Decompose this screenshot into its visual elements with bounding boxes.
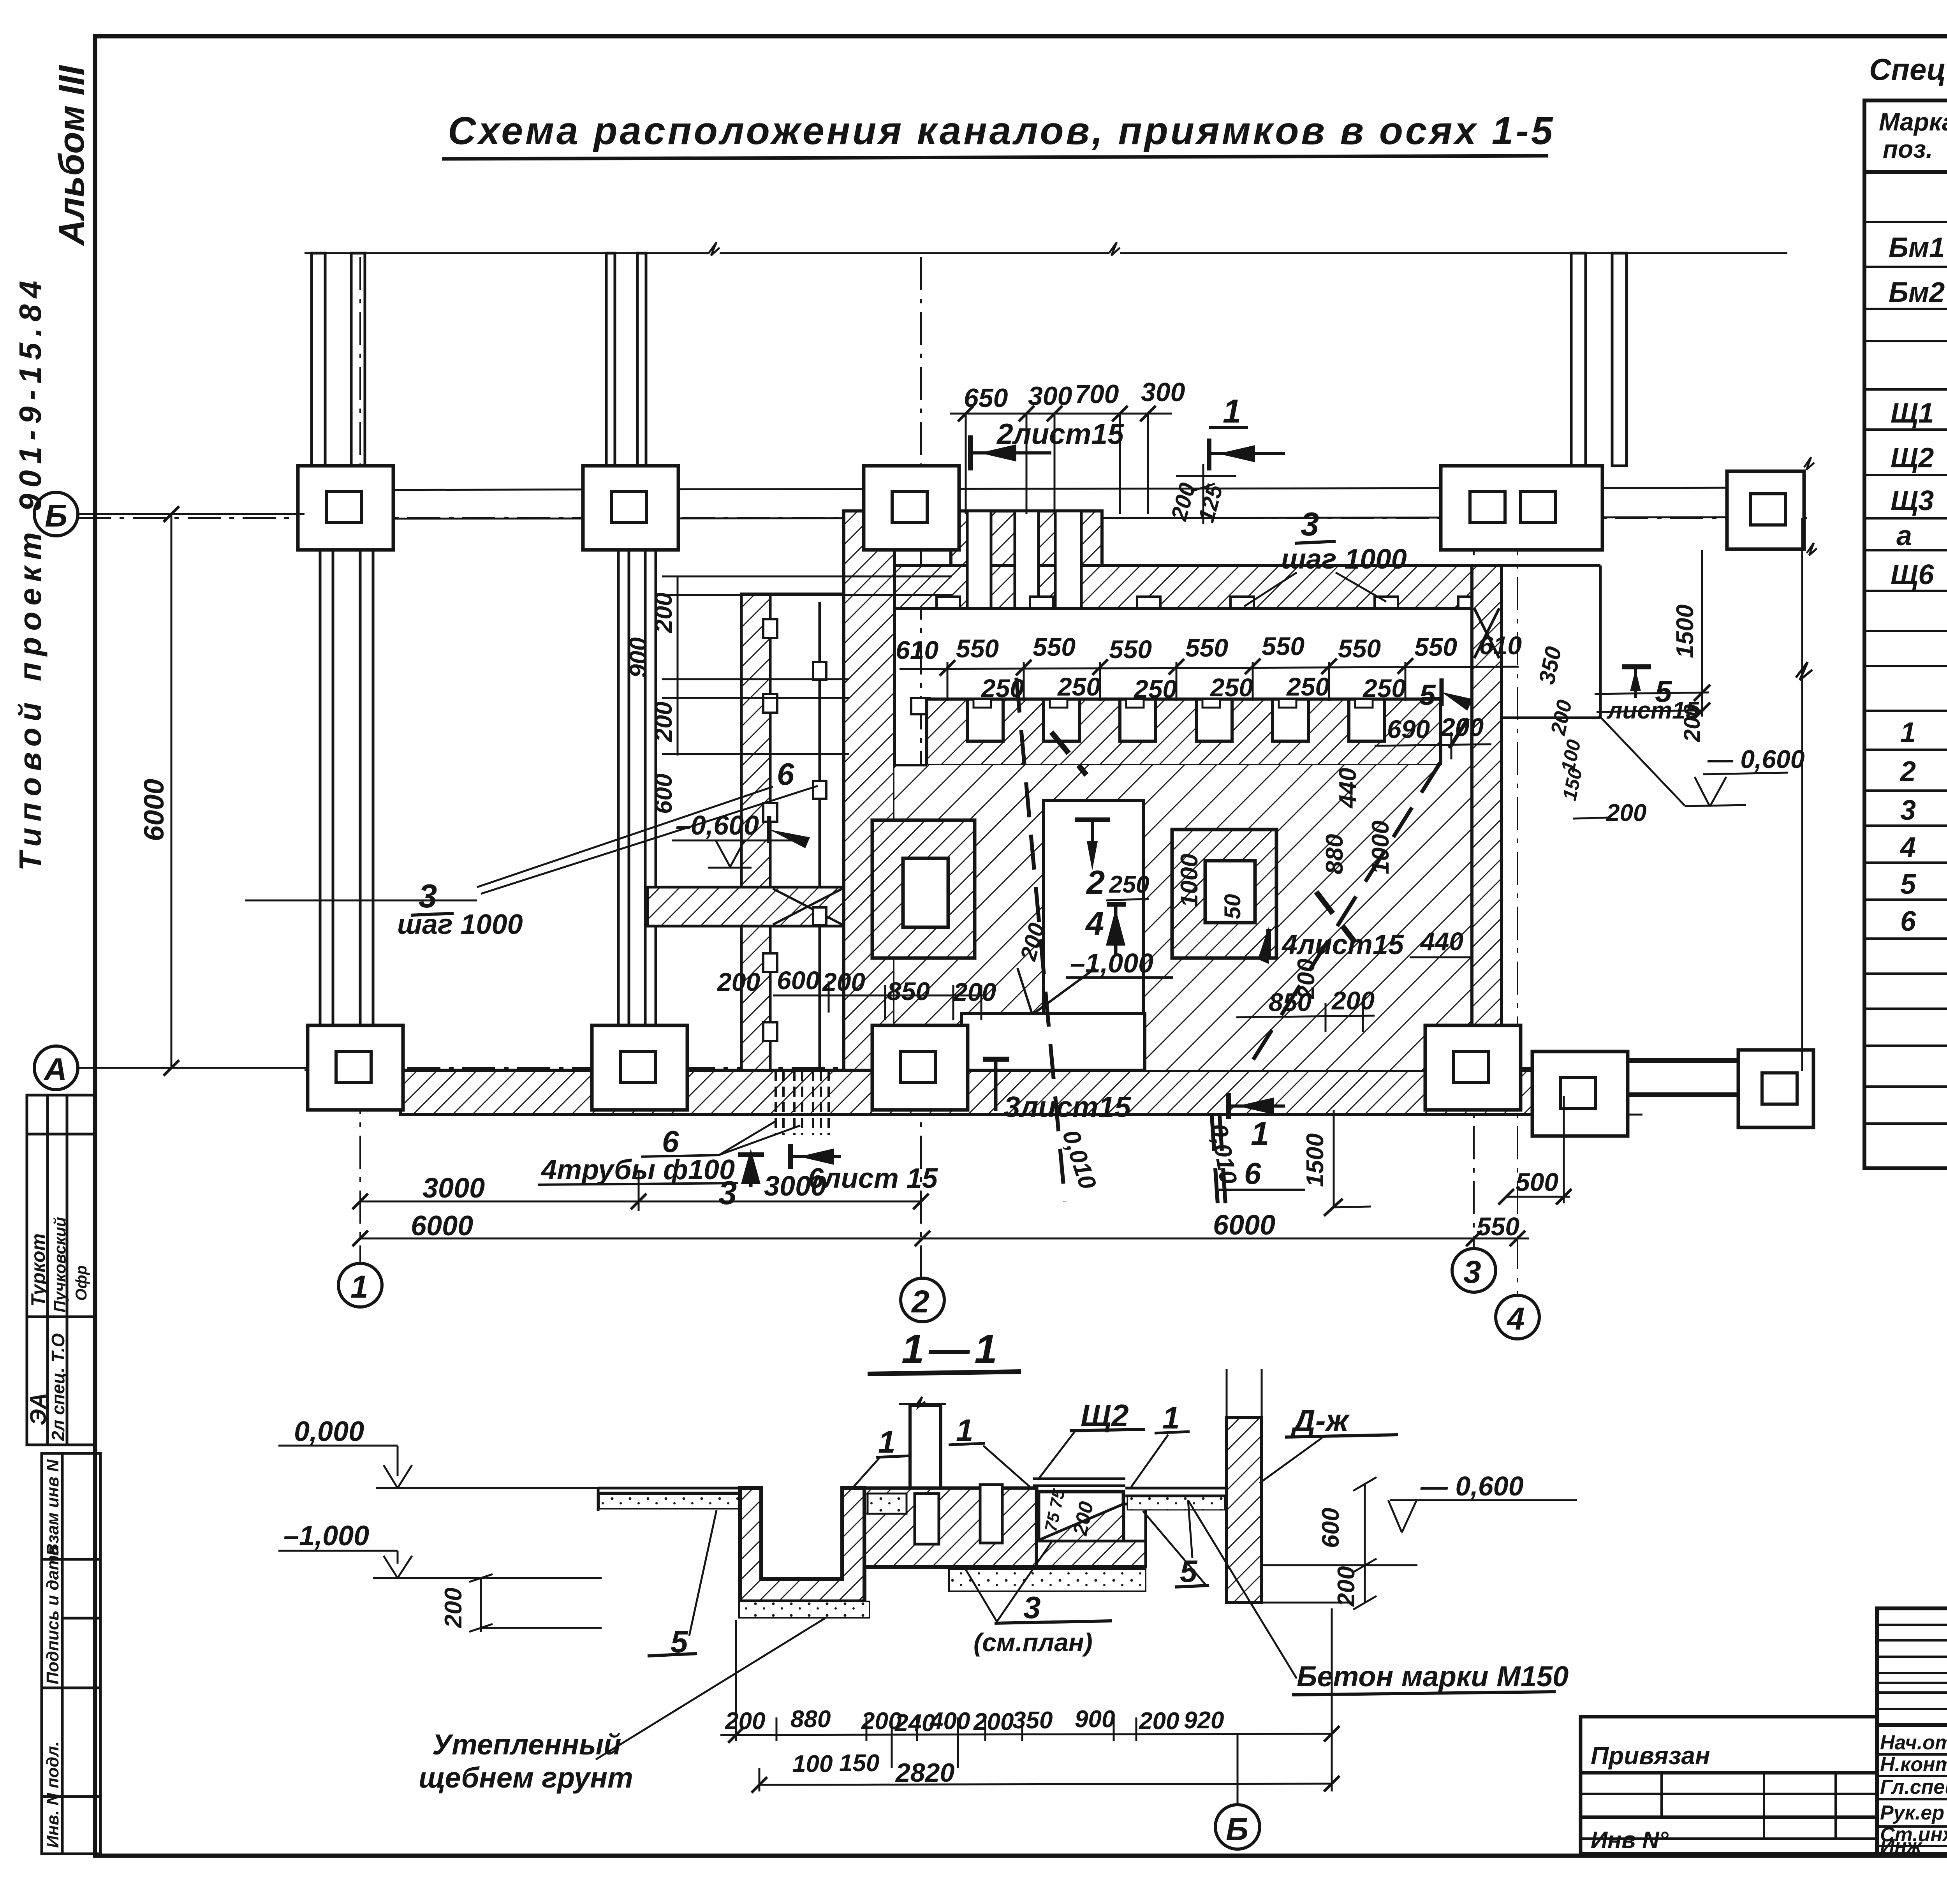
svg-text:6лист 15: 6лист 15 <box>808 1163 938 1194</box>
svg-text:200: 200 <box>1331 986 1375 1015</box>
svg-text:1—1: 1—1 <box>901 1326 1002 1372</box>
svg-text:6000: 6000 <box>1213 1210 1275 1241</box>
svg-text:350: 350 <box>1012 1707 1053 1734</box>
svg-text:2л спец. Т.О: 2л спец. Т.О <box>48 1333 68 1441</box>
svg-text:Щ3: Щ3 <box>1891 485 1934 516</box>
svg-text:2: 2 <box>1899 756 1916 787</box>
svg-text:3лист15: 3лист15 <box>1004 1090 1131 1123</box>
svg-text:250: 250 <box>1133 675 1177 703</box>
svg-text:200: 200 <box>440 1588 467 1628</box>
svg-text:Б: Б <box>45 498 67 534</box>
svg-text:Д-ж: Д-ж <box>1290 1403 1350 1438</box>
svg-text:Типовой проект 901-9-15.84: Типовой проект 901-9-15.84 <box>13 275 48 871</box>
svg-text:550: 550 <box>1477 1212 1519 1241</box>
svg-text:0,000: 0,000 <box>294 1416 364 1447</box>
svg-text:200: 200 <box>650 702 677 742</box>
svg-text:200: 200 <box>1606 800 1646 826</box>
svg-text:Щ2: Щ2 <box>1081 1398 1129 1433</box>
svg-text:550: 550 <box>956 634 999 663</box>
svg-text:200: 200 <box>973 1708 1014 1735</box>
svg-text:Инв N°: Инв N° <box>1591 1827 1669 1853</box>
svg-text:3000: 3000 <box>422 1173 485 1204</box>
svg-text:–1,000: –1,000 <box>283 1520 369 1552</box>
svg-text:1: 1 <box>350 1269 368 1305</box>
svg-text:250: 250 <box>1362 674 1406 703</box>
svg-text:4: 4 <box>1899 832 1916 863</box>
svg-text:900: 900 <box>625 638 652 678</box>
svg-text:1: 1 <box>1251 1115 1269 1152</box>
svg-text:850: 850 <box>1269 988 1311 1016</box>
svg-text:Инж: Инж <box>1880 1835 1923 1858</box>
svg-text:690: 690 <box>1387 715 1430 743</box>
svg-text:900: 900 <box>1075 1706 1115 1733</box>
svg-text:920: 920 <box>1184 1707 1224 1734</box>
svg-text:Схема расположения каналов,: Схема расположения каналов, приямков в о… <box>448 109 1555 153</box>
svg-text:700: 700 <box>1075 379 1119 409</box>
svg-text:А: А <box>43 1052 67 1087</box>
svg-text:1000: 1000 <box>1367 821 1394 874</box>
svg-text:3: 3 <box>1023 1590 1041 1625</box>
svg-text:1500: 1500 <box>1302 1133 1329 1187</box>
svg-text:3: 3 <box>1463 1254 1481 1290</box>
svg-text:550: 550 <box>1262 632 1304 660</box>
svg-text:Рук.ер: Рук.ер <box>1880 1802 1944 1824</box>
svg-text:6: 6 <box>1900 906 1916 937</box>
svg-text:4: 4 <box>1506 1301 1525 1337</box>
svg-text:3: 3 <box>1301 506 1319 543</box>
svg-text:Пучковский: Пучковский <box>51 1217 69 1312</box>
svg-text:Подпись и дата: Подпись и дата <box>43 1545 62 1684</box>
svg-text:Гл.спец: Гл.спец <box>1880 1776 1947 1798</box>
svg-text:Спецификация к схеме расположе: Спецификация к схеме расположения канало… <box>1869 52 1947 86</box>
svg-text:150: 150 <box>839 1750 879 1777</box>
svg-text:880: 880 <box>1321 834 1348 874</box>
svg-text:200: 200 <box>716 967 760 996</box>
svg-text:200: 200 <box>725 1708 765 1735</box>
svg-text:550: 550 <box>1414 632 1457 661</box>
svg-text:Взам инв N: Взам инв N <box>43 1459 62 1556</box>
svg-text:1500: 1500 <box>1672 604 1699 658</box>
svg-text:–1,000: –1,000 <box>1070 948 1153 978</box>
svg-text:880: 880 <box>790 1706 831 1733</box>
svg-text:4трубы ф100: 4трубы ф100 <box>540 1154 735 1185</box>
svg-text:Щ1: Щ1 <box>1891 398 1934 429</box>
svg-text:4: 4 <box>1085 905 1104 942</box>
svg-text:850: 850 <box>887 977 930 1006</box>
svg-text:610: 610 <box>896 636 938 664</box>
svg-text:Марка: Марка <box>1879 108 1947 136</box>
svg-text:5: 5 <box>1419 678 1436 711</box>
svg-text:1000: 1000 <box>1176 854 1203 907</box>
svg-text:2: 2 <box>1086 864 1105 901</box>
svg-text:Щ2: Щ2 <box>1891 442 1934 474</box>
svg-text:2820: 2820 <box>895 1758 954 1788</box>
svg-text:250: 250 <box>981 674 1024 703</box>
svg-text:Нач.отд: Нач.отд <box>1880 1731 1947 1754</box>
svg-text:Туркот: Туркот <box>27 1233 49 1307</box>
svg-text:250: 250 <box>1057 672 1100 701</box>
svg-text:200: 200 <box>1440 713 1484 742</box>
svg-text:550: 550 <box>1338 634 1381 663</box>
svg-text:250: 250 <box>1109 871 1149 898</box>
svg-text:100: 100 <box>792 1751 833 1777</box>
svg-text:1: 1 <box>956 1413 974 1448</box>
svg-text:Утепленный: Утепленный <box>432 1728 621 1761</box>
svg-text:50: 50 <box>1220 894 1245 919</box>
svg-text:— 0,600: — 0,600 <box>1707 745 1805 773</box>
svg-text:Офр: Офр <box>73 1265 90 1301</box>
svg-text:200: 200 <box>1139 1708 1179 1735</box>
svg-text:2: 2 <box>911 1284 929 1319</box>
svg-text:6: 6 <box>777 757 794 791</box>
svg-text:щебнем грунт: щебнем грунт <box>419 1761 633 1794</box>
svg-text:а: а <box>1896 520 1912 551</box>
svg-text:Щ6: Щ6 <box>1891 559 1934 590</box>
svg-text:поз.: поз. <box>1883 135 1933 163</box>
svg-text:200: 200 <box>1333 1566 1360 1607</box>
svg-text:250: 250 <box>1209 673 1253 702</box>
svg-text:6000: 6000 <box>139 779 170 841</box>
svg-text:шаг 1000: шаг 1000 <box>397 909 523 940</box>
svg-text:Б: Б <box>1226 1812 1248 1847</box>
svg-text:Альбом III: Альбом III <box>52 65 92 246</box>
svg-text:1: 1 <box>878 1425 896 1459</box>
svg-text:Привязан: Привязан <box>1591 1742 1710 1770</box>
svg-text:200: 200 <box>1679 704 1705 742</box>
svg-text:600: 600 <box>777 966 820 995</box>
svg-text:600: 600 <box>1317 1508 1344 1548</box>
svg-text:610: 610 <box>1479 631 1522 660</box>
svg-text:4лист15: 4лист15 <box>1281 929 1404 960</box>
svg-text:6: 6 <box>662 1124 679 1159</box>
svg-text:300: 300 <box>1141 377 1185 407</box>
svg-text:3: 3 <box>1900 795 1916 826</box>
svg-text:Н.контр: Н.контр <box>1880 1753 1947 1776</box>
svg-text:(см.план): (см.план) <box>974 1628 1093 1657</box>
svg-text:1: 1 <box>1162 1400 1180 1435</box>
svg-text:250: 250 <box>1286 672 1329 701</box>
svg-text:Бм1: Бм1 <box>1889 232 1945 263</box>
svg-text:550: 550 <box>1185 633 1228 662</box>
svg-text:550: 550 <box>1109 635 1152 664</box>
svg-text:ЭА: ЭА <box>26 1393 51 1425</box>
svg-text:600: 600 <box>650 774 677 814</box>
svg-text:Бетон марки М150: Бетон марки М150 <box>1297 1660 1569 1693</box>
svg-text:200: 200 <box>650 593 677 633</box>
svg-text:Бм2: Бм2 <box>1889 277 1945 308</box>
svg-text:400: 400 <box>929 1708 970 1735</box>
svg-text:6: 6 <box>1244 1156 1261 1191</box>
svg-text:440: 440 <box>1334 768 1361 809</box>
svg-text:1: 1 <box>1223 393 1241 430</box>
svg-text:200: 200 <box>952 978 996 1006</box>
svg-text:440: 440 <box>1420 927 1463 956</box>
svg-text:6000: 6000 <box>411 1210 473 1242</box>
svg-text:5: 5 <box>1900 869 1916 900</box>
svg-text:1: 1 <box>1900 717 1916 748</box>
svg-text:500: 500 <box>1516 1168 1558 1196</box>
svg-text:шаг 1000: шаг 1000 <box>1281 544 1407 575</box>
svg-text:— 0,600: — 0,600 <box>1420 1471 1524 1501</box>
svg-text:2лист15: 2лист15 <box>996 417 1124 450</box>
svg-text:550: 550 <box>1033 632 1076 661</box>
svg-text:240: 240 <box>894 1710 935 1737</box>
svg-text:Инв. N подл.: Инв. N подл. <box>43 1741 62 1848</box>
